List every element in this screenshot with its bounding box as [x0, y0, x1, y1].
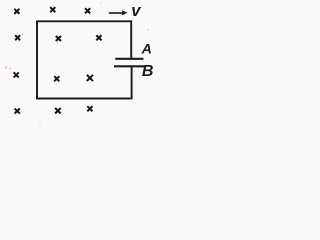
- svg-text:v: v: [131, 2, 141, 20]
- svg-text:B: B: [142, 63, 154, 80]
- svg-text:A: A: [141, 42, 152, 58]
